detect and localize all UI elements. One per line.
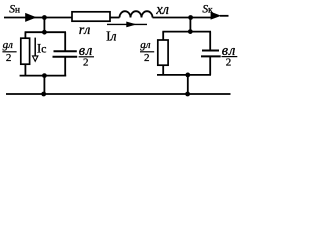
wire left branch drop from node A xyxy=(43,18,45,33)
wire between resistor and inductor xyxy=(110,17,120,19)
svg-text:хл: хл xyxy=(155,2,169,18)
wire right capacitor bottom lead xyxy=(209,57,211,75)
svg-text:2: 2 xyxy=(226,56,232,68)
junction dot left top bus xyxy=(42,30,47,35)
junction dot left bottom bus xyxy=(42,73,47,78)
svg-text:gл: gл xyxy=(140,39,151,51)
resistor rл xyxy=(72,12,110,21)
junction dot left on rail xyxy=(41,92,46,97)
svg-text:Iс: Iс xyxy=(37,41,47,55)
wire left branch drop to rail xyxy=(43,76,45,94)
wire left branch bottom bus xyxy=(20,75,67,77)
resistor gл/2 right xyxy=(158,40,168,65)
svg-text:Sк: Sк xyxy=(202,4,213,16)
wire left resistor bottom lead xyxy=(24,64,26,75)
svg-text:rл: rл xyxy=(79,23,91,38)
node B junction dot on top wire xyxy=(188,15,193,20)
wire output shaft after Sк arrow xyxy=(220,15,229,17)
svg-text:Sн: Sн xyxy=(9,3,20,15)
inductor xл xyxy=(120,11,153,17)
label gл/2 right xyxy=(140,39,154,64)
arrow Iс current reference xyxy=(33,38,38,62)
wire right branch top bus xyxy=(162,31,211,33)
wire left branch top bus xyxy=(25,31,66,33)
label gл/2 left xyxy=(2,39,16,64)
wire top main left segment xyxy=(4,17,72,19)
junction dot right on rail xyxy=(185,92,190,97)
wire bottom rail xyxy=(6,93,231,95)
svg-text:2: 2 xyxy=(144,52,150,64)
node A junction dot on top wire xyxy=(42,15,47,20)
wire right capacitor top lead xyxy=(209,32,211,50)
label вл/2 left xyxy=(79,43,94,69)
capacitor вл/2 right xyxy=(201,51,221,57)
wire left capacitor bottom lead xyxy=(64,58,66,76)
wire right resistor bottom lead xyxy=(162,65,164,75)
arrow Sк power-flow on output wire xyxy=(211,12,222,20)
junction dot right top bus xyxy=(188,29,193,34)
wire left resistor top lead xyxy=(24,32,26,38)
wire right branch drop from node B xyxy=(189,18,191,32)
arrow Sн power-flow on input wire xyxy=(25,13,36,22)
wire left capacitor top lead xyxy=(64,32,66,50)
label вл/2 right xyxy=(222,43,238,69)
svg-text:Iл: Iл xyxy=(106,29,117,45)
svg-text:2: 2 xyxy=(83,57,89,69)
junction dot right bottom bus xyxy=(185,73,190,78)
svg-text:2: 2 xyxy=(6,52,11,64)
arrow Iл current reference under inductor xyxy=(107,22,147,28)
wire right resistor top lead xyxy=(162,32,164,40)
svg-text:gл: gл xyxy=(3,39,14,51)
wire right branch bottom bus xyxy=(157,74,211,76)
wire after inductor to node B xyxy=(153,17,212,19)
resistor gл/2 left xyxy=(21,38,30,64)
capacitor вл/2 left xyxy=(53,51,78,57)
wire right branch drop to rail xyxy=(187,75,189,94)
